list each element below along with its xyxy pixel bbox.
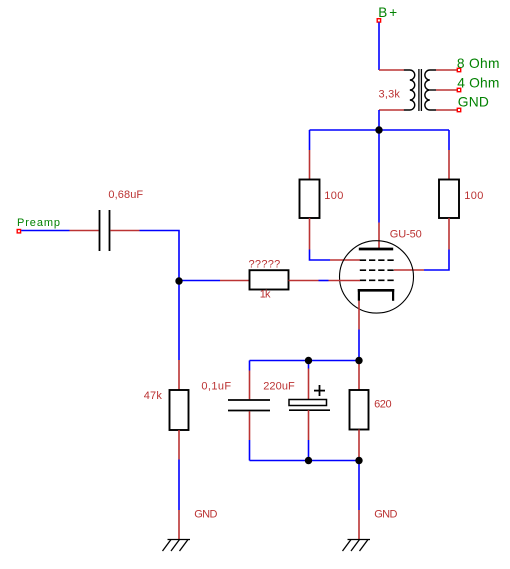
- junction 620 bottom: [355, 457, 362, 464]
- junction 220uF bottom: [305, 457, 312, 464]
- svg-text:GND: GND: [374, 508, 397, 520]
- svg-text:0,68uF: 0,68uF: [108, 189, 143, 201]
- wire right 100 top lead: [448, 150, 450, 180]
- wire secondary 4 Ohm: [436, 89, 457, 91]
- wire right 100 to g2 blue: [424, 250, 449, 271]
- wire primary bottom lead: [379, 109, 404, 111]
- capacitor 0,1uF: [228, 400, 270, 411]
- transformer 3,3k: [404, 69, 436, 111]
- wire right ground lead: [358, 510, 360, 539]
- wire left 100 top blue: [309, 130, 311, 150]
- wire 620 bottom lead: [358, 430, 360, 461]
- svg-text:220uF: 220uF: [263, 380, 295, 392]
- pin 8 Ohm: [457, 68, 460, 71]
- svg-text:100: 100: [464, 190, 484, 202]
- junction node plate rail: [375, 126, 382, 133]
- resistor 47k: [170, 390, 189, 430]
- wire secondary GND: [436, 109, 457, 111]
- capacitor 0,68uF: [100, 210, 110, 251]
- wire 0,1uF bottom lead: [249, 411, 251, 440]
- wire primary bottom to node: [378, 110, 380, 130]
- svg-text:GND: GND: [458, 95, 489, 110]
- wire cathode to ground blue: [358, 461, 360, 511]
- wire right 100 bottom lead: [448, 218, 450, 250]
- wire 1k right lead: [289, 280, 319, 282]
- svg-text:3,3k: 3,3k: [379, 88, 401, 100]
- wire 220uF bottom blue: [308, 440, 310, 461]
- wire 47k top lead: [178, 360, 180, 390]
- wire g1 lead: [329, 280, 361, 282]
- ground left: [163, 540, 191, 552]
- svg-text:GND: GND: [194, 508, 217, 520]
- pin Preamp: [17, 230, 20, 233]
- svg-text:GU-50: GU-50: [390, 229, 422, 241]
- wire plate lead: [378, 223, 380, 249]
- wire 220uF top blue: [308, 361, 310, 369]
- wire left 100 bottom lead: [309, 218, 311, 250]
- svg-text:47k: 47k: [144, 390, 163, 402]
- svg-text:B+: B+: [378, 5, 399, 20]
- ground right: [343, 540, 371, 552]
- wire 0,1uF bottom blue: [249, 440, 251, 461]
- wire 47k to ground blue: [178, 460, 180, 511]
- wire 0,68uF right lead: [110, 230, 139, 232]
- wire g2 lead: [394, 269, 424, 271]
- junction cathode rail: [355, 357, 362, 364]
- capacitor 220uF: [289, 385, 330, 410]
- resistor 100 right: [439, 180, 459, 219]
- svg-text:4 Ohm: 4 Ohm: [457, 76, 499, 91]
- wire grid node down blue: [178, 281, 180, 360]
- wire g1 from junction blue: [179, 280, 220, 282]
- pin B+: [377, 19, 380, 22]
- wire right 100 top blue: [448, 130, 450, 150]
- wire to grid junction blue: [140, 231, 180, 282]
- wire 220uF top lead: [308, 369, 310, 400]
- svg-text:8 Ohm: 8 Ohm: [457, 56, 500, 71]
- junction 220uF top: [305, 357, 312, 364]
- wire 1k left lead: [220, 280, 250, 282]
- wire bottom rail blue: [250, 460, 360, 462]
- wire top rail blue: [250, 360, 360, 362]
- wire primary top lead: [379, 69, 404, 71]
- resistor 620: [350, 390, 369, 430]
- wire 220uF bottom lead: [308, 410, 310, 440]
- wire 0,1uF top blue: [249, 361, 251, 371]
- wire B+ vertical: [378, 22, 380, 70]
- wire g3 lead: [330, 259, 360, 261]
- wire input blue: [21, 230, 69, 232]
- wire cathode down blue: [358, 330, 360, 361]
- resistor 1k: [250, 270, 289, 289]
- svg-text:Preamp: Preamp: [17, 217, 61, 229]
- svg-text:100: 100: [324, 190, 344, 202]
- tube GU-50: [340, 241, 414, 313]
- svg-text:?????: ?????: [249, 258, 281, 270]
- svg-text:0,1uF: 0,1uF: [201, 381, 231, 393]
- wire plate rail: [310, 129, 450, 131]
- pin 4 Ohm: [457, 88, 460, 91]
- wire 47k bottom lead: [178, 430, 180, 460]
- wire g1 blue segment: [319, 280, 329, 282]
- svg-text:1k: 1k: [260, 288, 271, 300]
- wire 0,68uF left lead: [70, 230, 99, 232]
- wire left 100 top lead: [309, 150, 311, 180]
- junction grid node: [175, 277, 182, 284]
- svg-text:620: 620: [374, 398, 391, 410]
- wire 0,1uF top lead: [249, 371, 251, 400]
- pin GND: [457, 108, 460, 111]
- wire cathode lead: [358, 301, 360, 330]
- wire left 100 to g3 blue: [310, 250, 331, 261]
- wire 620 top lead: [358, 361, 360, 390]
- wire secondary 8 Ohm: [436, 69, 457, 71]
- wire left ground lead: [178, 510, 180, 539]
- wire node to plate blue: [378, 130, 380, 223]
- resistor 100 left: [300, 180, 320, 219]
